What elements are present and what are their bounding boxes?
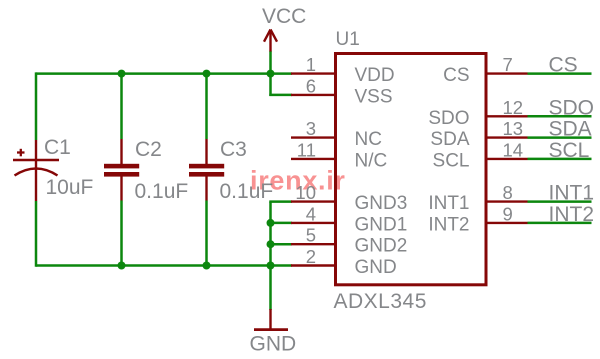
wire top horizontal net VCC xyxy=(36,72,292,75)
svg-text:GND2: GND2 xyxy=(355,236,408,257)
svg-text:3: 3 xyxy=(306,118,316,139)
svg-text:VSS: VSS xyxy=(355,86,393,107)
svg-text:SCL: SCL xyxy=(549,139,590,162)
pin stub 12 SDO xyxy=(486,115,528,117)
svg-text:9: 9 xyxy=(503,203,513,224)
net label INT1 xyxy=(549,182,595,205)
net label CS xyxy=(549,54,578,77)
pin stub 10 GND3 xyxy=(291,200,336,202)
pin number 7 xyxy=(503,54,513,75)
wire net INT1 xyxy=(528,200,592,203)
svg-text:GND3: GND3 xyxy=(355,193,408,214)
pin stub 1 VDD xyxy=(291,72,336,74)
pin stub 4 GND1 xyxy=(291,222,336,224)
svg-text:SDO: SDO xyxy=(428,108,469,129)
pin stub 11 N/C xyxy=(291,158,336,160)
pin number 5 xyxy=(306,225,316,246)
svg-text:12: 12 xyxy=(503,97,524,118)
wire VCC symbol to net junction xyxy=(269,51,272,96)
VCC label xyxy=(262,5,306,28)
junction bottom wire / C2 xyxy=(118,262,126,270)
junction GND vertical / pin 5 xyxy=(267,240,275,248)
pin name GND3 xyxy=(355,193,408,214)
svg-text:INT2: INT2 xyxy=(428,214,469,235)
svg-text:2: 2 xyxy=(306,246,316,267)
svg-text:10: 10 xyxy=(295,182,316,203)
wire C3 bottom vertical xyxy=(205,201,208,266)
pin number 8 xyxy=(503,182,513,203)
wire net SDA xyxy=(528,136,592,139)
pin stub 13 SDA xyxy=(486,136,528,138)
pin stub 3 NC xyxy=(291,136,336,138)
pin stub 5 GND2 xyxy=(291,243,336,245)
wire GND vertical xyxy=(269,202,272,310)
junction top wire / C2 xyxy=(118,70,126,78)
watermark irenx.ir xyxy=(250,166,346,196)
C2 value label 0.1uF xyxy=(135,180,189,203)
wire bottom horizontal GND net xyxy=(36,264,292,267)
IC U1 body outline xyxy=(336,54,487,285)
svg-text:1: 1 xyxy=(306,54,316,75)
svg-text:13: 13 xyxy=(503,118,524,139)
junction top wire / VCC xyxy=(267,70,275,78)
junction bottom wire / C3 xyxy=(203,262,211,270)
pin stub 2 GND xyxy=(291,264,336,266)
svg-text:CS: CS xyxy=(549,54,578,77)
C3 value label 0.1uF xyxy=(220,180,274,203)
svg-text:N/C: N/C xyxy=(355,150,388,171)
pin name SDA xyxy=(430,129,469,150)
wire pin 10 net xyxy=(269,200,292,203)
wire pin 6 net xyxy=(269,94,292,97)
pin number 6 xyxy=(306,75,316,96)
junction top wire / C3 xyxy=(203,70,211,78)
pin number 9 xyxy=(503,203,513,224)
wire net INT2 xyxy=(528,222,592,225)
pin number 12 xyxy=(503,97,524,118)
C3 name label xyxy=(220,138,247,161)
svg-text:0.1uF: 0.1uF xyxy=(220,180,274,203)
wire C1 top vertical xyxy=(35,72,38,140)
junction GND vertical / pin 4 xyxy=(267,219,275,227)
pin stub 14 SCL xyxy=(486,158,528,160)
svg-text:ADXL345: ADXL345 xyxy=(334,290,427,313)
wire pin 5 net xyxy=(271,243,293,246)
pin name GND2 xyxy=(355,236,408,257)
svg-text:C3: C3 xyxy=(220,138,247,161)
capacitor C2 xyxy=(104,139,139,201)
C1 value label 10uF xyxy=(46,176,94,199)
capacitor C1 (polarized) xyxy=(13,140,59,201)
ground symbol xyxy=(254,309,288,330)
svg-text:GND: GND xyxy=(250,333,297,356)
pin number 14 xyxy=(503,139,524,160)
svg-text:C1: C1 xyxy=(44,136,71,159)
svg-text:4: 4 xyxy=(306,203,316,224)
wire C1 bottom vertical xyxy=(35,201,38,267)
pin stub 7 CS xyxy=(486,72,528,74)
svg-text:VCC: VCC xyxy=(262,5,306,28)
svg-text:5: 5 xyxy=(306,225,316,246)
svg-text:11: 11 xyxy=(297,139,316,160)
svg-text:8: 8 xyxy=(503,182,513,203)
svg-text:6: 6 xyxy=(306,75,316,96)
wire net SCL xyxy=(528,158,592,161)
pin number 2 xyxy=(306,246,316,267)
pin name NC xyxy=(355,129,382,150)
VCC power symbol arrow xyxy=(264,30,277,52)
svg-text:U1: U1 xyxy=(336,29,360,50)
wire C2 bottom vertical xyxy=(120,201,123,266)
wire C2 top vertical xyxy=(120,74,123,139)
svg-text:7: 7 xyxy=(503,54,513,75)
svg-text:GND: GND xyxy=(355,257,397,278)
capacitor C3 xyxy=(189,139,224,201)
wire net SDO xyxy=(528,115,592,118)
net label SDA xyxy=(549,118,592,141)
svg-text:C2: C2 xyxy=(135,138,162,161)
svg-text:10uF: 10uF xyxy=(46,176,94,199)
svg-text:INT1: INT1 xyxy=(428,193,469,214)
junction bottom wire / GND vertical xyxy=(267,262,275,270)
pin stub 8 INT1 xyxy=(486,200,528,202)
pin name GND xyxy=(355,257,397,278)
svg-text:INT2: INT2 xyxy=(549,203,595,226)
GND label xyxy=(250,333,297,356)
svg-text:SCL: SCL xyxy=(433,150,470,171)
pin name SCL xyxy=(433,150,470,171)
pin name INT2 xyxy=(428,214,469,235)
wire pin 4 net xyxy=(271,222,293,225)
svg-text:GND1: GND1 xyxy=(355,214,408,235)
svg-text:INT1: INT1 xyxy=(549,182,595,205)
pin stub 9 INT2 xyxy=(486,222,528,224)
pin name CS xyxy=(443,65,469,86)
wire net CS xyxy=(528,72,592,75)
pin number 1 xyxy=(306,54,316,75)
pin name GND1 xyxy=(355,214,408,235)
svg-text:0.1uF: 0.1uF xyxy=(135,180,189,203)
svg-text:CS: CS xyxy=(443,65,469,86)
pin number 10 xyxy=(295,182,316,203)
U1 name label xyxy=(336,29,360,50)
U1 value label ADXL345 xyxy=(334,290,427,313)
svg-text:NC: NC xyxy=(355,129,382,150)
pin number 11 xyxy=(297,139,316,160)
pin number 4 xyxy=(306,203,316,224)
pin name INT1 xyxy=(428,193,469,214)
C1 name label xyxy=(44,136,71,159)
pin name VSS xyxy=(355,86,393,107)
net label SDO xyxy=(549,96,595,119)
wire C3 top vertical xyxy=(205,74,208,139)
pin name N/C xyxy=(355,150,388,171)
net label SCL xyxy=(549,139,590,162)
pin name VDD xyxy=(355,65,395,86)
svg-text:14: 14 xyxy=(503,139,524,160)
C2 name label xyxy=(135,138,162,161)
svg-text:SDO: SDO xyxy=(549,96,595,119)
svg-text:SDA: SDA xyxy=(549,118,592,141)
pin number 13 xyxy=(503,118,524,139)
svg-text:SDA: SDA xyxy=(430,129,469,150)
pin stub 6 VSS xyxy=(291,94,336,96)
svg-text:VDD: VDD xyxy=(355,65,395,86)
pin name SDO xyxy=(428,108,469,129)
net label INT2 xyxy=(549,203,595,226)
pin number 3 xyxy=(306,118,316,139)
